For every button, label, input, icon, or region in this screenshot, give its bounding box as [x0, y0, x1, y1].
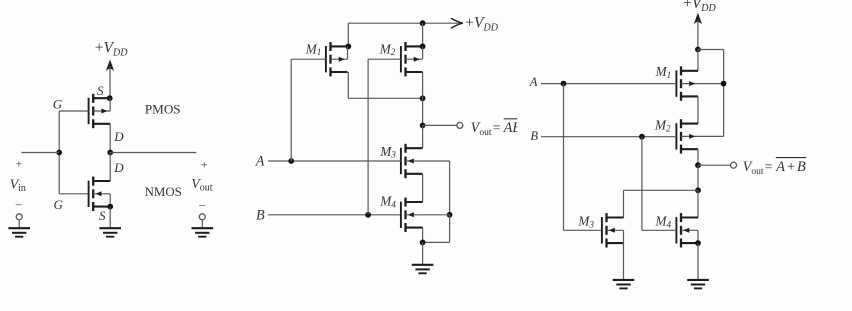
svg-text:+VDD: +VDD	[95, 40, 128, 59]
wire M2 drain to output	[697, 149, 699, 165]
VDD arrow (inverter)	[106, 60, 114, 99]
wire M4 gate lead	[642, 229, 677, 231]
transistor PMOS Q1 (inverter)	[89, 94, 111, 128]
svg-text:G: G	[54, 197, 64, 212]
transistor M4 NMOS (NOR)	[676, 213, 698, 247]
wire M2 body to source	[422, 46, 424, 59]
wire M1 drain to M2 source	[697, 96, 699, 123]
wire M2 gate lead	[368, 58, 401, 60]
svg-text:–: –	[15, 199, 22, 211]
wire M4 source to ground	[697, 243, 699, 279]
wire A to M3 gate vertical	[563, 84, 565, 231]
svg-text:M1: M1	[655, 64, 672, 80]
wire PMOS drain to output node	[109, 124, 111, 153]
node M4 source	[695, 240, 701, 246]
wire M2 drain to common node	[422, 72, 424, 98]
node output (NOR)	[695, 162, 701, 168]
node B junction (NOR)	[639, 134, 645, 140]
ground (Vout terminal)	[192, 228, 214, 237]
svg-text:+VDD: +VDD	[683, 0, 716, 14]
wire A to M1 gate vertical	[290, 59, 292, 161]
transistor M2 PMOS (NAND)	[401, 42, 423, 76]
node M4 body junction	[447, 212, 453, 218]
svg-text:M1: M1	[305, 41, 322, 57]
wire M3 body loop	[423, 161, 450, 215]
wire M3 gate lead	[564, 229, 602, 231]
wire M4 body loop	[423, 215, 450, 243]
wire M1 body to source	[347, 46, 349, 59]
svg-text:+: +	[201, 160, 208, 172]
transistor M3 NMOS (NAND)	[401, 144, 423, 178]
wire gate bus vertical	[58, 111, 60, 194]
wire M1 drain down	[347, 72, 349, 98]
svg-text:S: S	[97, 83, 104, 98]
node A junction (NAND)	[288, 158, 294, 164]
wire M1 body to rail	[698, 83, 724, 85]
svg-text:PMOS: PMOS	[145, 101, 181, 116]
terminal circle output (NAND)	[457, 122, 463, 128]
wire output to M3 drain	[422, 125, 424, 148]
wire Vin to gates	[22, 152, 60, 154]
node M1 source	[345, 44, 351, 50]
wire B to M4 gate vertical	[641, 137, 643, 231]
svg-text:D: D	[113, 160, 124, 175]
ground (NAND)	[412, 265, 434, 274]
wire to ground (NAND)	[422, 242, 424, 264]
wire M4 body to source	[697, 230, 699, 243]
node output junction	[107, 150, 113, 156]
node pulldown (NOR)	[695, 187, 701, 193]
wire M3 body to source	[623, 230, 625, 243]
transistor M4 NMOS (NAND)	[401, 198, 423, 232]
wire pulldown node to M3	[624, 190, 699, 217]
wire output to pulldown node	[697, 165, 699, 190]
wire Vout terminal to ground	[201, 220, 203, 227]
wire output lead (NAND)	[423, 124, 457, 126]
node VDD junction (NOR)	[695, 47, 701, 53]
VDD rail arrow (NAND)	[451, 19, 462, 28]
wire common node to output	[422, 98, 424, 125]
terminal circle output (NOR)	[731, 162, 737, 168]
svg-text:B: B	[530, 129, 538, 143]
VDD arrow (NOR)	[694, 13, 702, 50]
node PMOS source	[107, 95, 113, 101]
wire M2 source to rail	[422, 23, 424, 46]
node M1 body junction	[721, 81, 727, 87]
svg-text:Vin: Vin	[10, 177, 26, 194]
label Vout = A+B-bar (NOR)	[743, 158, 807, 177]
wire input B (NAND)	[268, 214, 401, 216]
svg-text:D: D	[113, 129, 124, 144]
node NMOS source	[107, 204, 113, 210]
svg-text:=: =	[765, 159, 773, 174]
ground (NOR M4)	[687, 280, 709, 289]
svg-text:Vout: Vout	[191, 177, 213, 194]
ground (inverter NMOS)	[99, 228, 121, 237]
terminal circle (Vin)	[16, 214, 22, 220]
transistor M1 PMOS (NOR)	[676, 66, 698, 100]
svg-text:M3: M3	[379, 144, 396, 160]
svg-text:S: S	[99, 208, 106, 223]
svg-text:+: +	[16, 159, 23, 171]
wire M3 source to M4 drain	[422, 174, 424, 202]
transistor M1 PMOS (NAND)	[326, 42, 348, 76]
transistor M2 PMOS (NOR)	[676, 119, 698, 153]
svg-text:NMOS: NMOS	[145, 185, 182, 199]
svg-text:M4: M4	[379, 194, 396, 210]
node common drain (NAND)	[420, 95, 426, 101]
svg-text:B: B	[256, 208, 265, 224]
svg-text:M3: M3	[577, 214, 594, 230]
node M2 source	[420, 44, 426, 50]
svg-text:A: A	[255, 154, 265, 170]
wire M1 source to rail	[347, 23, 349, 46]
label Vout = AB-bar (NAND)	[471, 110, 528, 138]
node input junction	[56, 150, 62, 156]
node B junction (NAND)	[365, 212, 371, 218]
ground (NOR M3)	[613, 280, 635, 289]
wire Vin terminal to ground	[18, 220, 20, 227]
wire NMOS gate lead	[59, 193, 88, 195]
terminal circle (Vout)	[199, 214, 205, 220]
svg-text:G: G	[53, 96, 63, 111]
wire NMOS body to source	[109, 194, 111, 207]
wire output lead (NOR)	[698, 164, 730, 166]
wire B to M2 gate vertical	[367, 59, 369, 215]
svg-text:M2: M2	[379, 41, 396, 57]
wire M4 source down	[422, 228, 424, 243]
wire output to Vout	[110, 152, 196, 154]
node output (NAND)	[420, 123, 426, 129]
svg-text:M2: M2	[654, 118, 671, 134]
wire M1 drain to common node	[348, 97, 422, 99]
svg-text:Vout: Vout	[471, 120, 492, 138]
transistor NMOS Q2 (inverter)	[89, 177, 111, 211]
ground (Vin terminal)	[8, 228, 30, 237]
wire input A (NOR)	[541, 83, 676, 85]
svg-text:=: =	[493, 120, 501, 135]
wire VDD rail (NAND)	[348, 22, 461, 24]
svg-text:+VDD: +VDD	[465, 15, 498, 34]
node A junction (NOR)	[561, 81, 567, 87]
node source-ground junction (NAND)	[420, 240, 426, 246]
wire NMOS drain to output node	[109, 153, 111, 182]
wire VDD to M1 source	[697, 50, 699, 71]
wire body rail (NOR)	[698, 50, 724, 137]
wire input B (NOR)	[541, 136, 676, 138]
svg-text:A + B: A + B	[775, 159, 806, 175]
svg-text:–: –	[198, 199, 205, 211]
wire NMOS source to ground	[109, 207, 111, 228]
svg-text:Vout: Vout	[743, 159, 764, 177]
wire PMOS gate lead	[59, 110, 88, 112]
transistor M3 NMOS (NOR)	[602, 213, 624, 247]
node VDD rail junction	[420, 20, 426, 26]
wire PMOS body to source	[109, 98, 111, 111]
wire M1 gate lead	[291, 58, 326, 60]
svg-text:M4: M4	[655, 214, 672, 230]
wire pulldown node to M4 drain	[697, 190, 699, 217]
wire M3 source to ground	[623, 243, 625, 279]
wire M2 body to rail	[698, 135, 724, 137]
wire input A (NAND)	[268, 160, 401, 162]
svg-text:A: A	[529, 75, 538, 89]
